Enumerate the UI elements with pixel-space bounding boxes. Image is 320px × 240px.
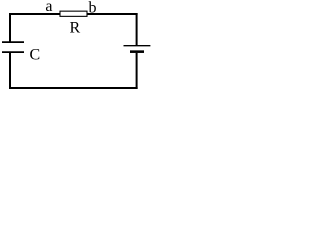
svg-text:b: b	[89, 0, 97, 16]
svg-text:a: a	[45, 0, 52, 15]
svg-text:C: C	[30, 46, 41, 63]
svg-text:R: R	[70, 19, 81, 36]
